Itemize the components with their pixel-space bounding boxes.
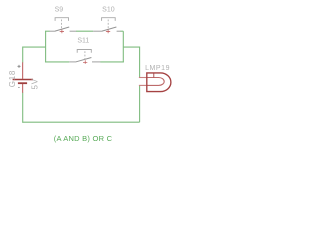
battery G18	[8, 62, 40, 93]
S11 actuator bracket	[77, 50, 91, 53]
wire: left junction vertical	[45, 31, 47, 62]
battery short plate	[18, 82, 27, 84]
switch S9	[49, 7, 76, 34]
lamp bottom lead	[139, 84, 147, 86]
switch S11	[69, 38, 100, 64]
battery long plate	[13, 79, 33, 81]
S9 red plus (open marker)	[60, 30, 64, 34]
S9 blade	[55, 27, 69, 31]
S10 left lead	[93, 30, 102, 32]
S11 right lead	[92, 61, 100, 63]
svg-text:(A AND B) OR C: (A AND B) OR C	[54, 134, 113, 143]
S11 left lead	[69, 61, 76, 63]
svg-text:5V: 5V	[31, 78, 40, 89]
battery bottom lead	[22, 84, 24, 93]
S10 actuator dashed link	[107, 20, 109, 30]
S9 right lead	[70, 30, 77, 32]
S11 red plus (open marker)	[83, 60, 87, 64]
S10 actuator bracket	[102, 18, 116, 21]
wire: lamp bottom down	[139, 85, 141, 122]
svg-text:S10: S10	[102, 7, 115, 14]
wire: output to lamp top	[123, 47, 139, 77]
S11 actuator dashed link	[84, 51, 86, 60]
S10 red plus (open marker)	[106, 30, 110, 34]
lamp filament loop	[147, 78, 164, 86]
wire: right junction vertical	[122, 31, 124, 62]
wire: battery top feed to left junction	[23, 47, 46, 62]
battery top lead	[22, 62, 24, 79]
wire: middle row segment before S11	[45, 61, 69, 63]
svg-text:S11: S11	[77, 38, 89, 45]
S10 blade	[102, 27, 116, 31]
wire: middle row segment after S11	[100, 61, 124, 63]
svg-text:LMP19: LMP19	[145, 65, 170, 72]
S11 blade	[76, 58, 91, 62]
wire: top row segment before S9	[45, 30, 50, 32]
lamp LMP19	[139, 65, 171, 92]
wire: left bottom vertical	[22, 93, 24, 123]
battery plus mark	[18, 65, 21, 68]
lamp filament support tick	[153, 73, 155, 77]
S10 right lead	[117, 30, 121, 32]
wire: top row segment after S10	[120, 30, 123, 32]
battery minus mark	[18, 86, 20, 88]
wire: top row segment S9 to S10	[76, 30, 93, 32]
switch S10	[93, 7, 121, 34]
lamp top lead	[139, 77, 147, 79]
S9 left lead	[49, 30, 55, 32]
S9 actuator dashed link	[61, 20, 63, 30]
wire: bottom return	[23, 121, 140, 123]
svg-text:S9: S9	[55, 7, 64, 14]
lamp outer body	[147, 73, 171, 92]
svg-text:G18: G18	[8, 70, 17, 87]
S9 actuator bracket	[55, 18, 68, 21]
